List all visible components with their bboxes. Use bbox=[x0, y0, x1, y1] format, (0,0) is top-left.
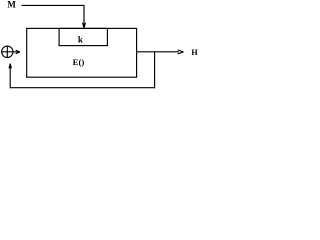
wire xor to E bbox=[13, 51, 18, 53]
wire E output bbox=[137, 51, 179, 53]
svg-text:k: k bbox=[78, 35, 83, 45]
wire feedback bottom bbox=[10, 87, 155, 89]
svg-text:M: M bbox=[7, 0, 16, 10]
box E outer bbox=[27, 28, 137, 77]
svg-text:E(): E() bbox=[73, 57, 85, 67]
wire M vertical drop bbox=[83, 5, 85, 27]
xor plus vertical bbox=[6, 46, 8, 57]
box k inner bbox=[59, 28, 107, 45]
arrowhead into k bbox=[83, 23, 86, 28]
wire feedback branch down bbox=[154, 52, 156, 88]
wire feedback up to xor bbox=[9, 64, 11, 88]
arrowhead to H bbox=[178, 50, 184, 54]
arrowhead into E left bbox=[16, 50, 20, 53]
xor plus horizontal bbox=[2, 51, 13, 53]
svg-text:H: H bbox=[191, 48, 198, 57]
xor circle bbox=[2, 46, 13, 57]
wire M horizontal bbox=[22, 4, 85, 6]
background bbox=[0, 0, 202, 90]
arrowhead into xor bottom bbox=[9, 64, 11, 69]
